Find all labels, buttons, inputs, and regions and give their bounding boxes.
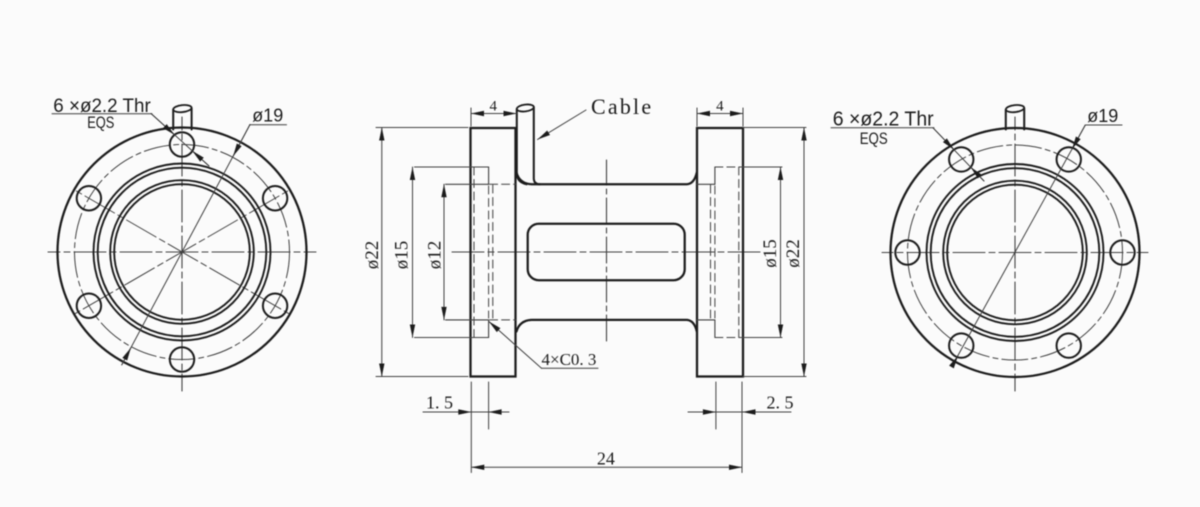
- svg-text:4×C0. 3: 4×C0. 3: [542, 350, 597, 369]
- svg-text:ø22: ø22: [362, 241, 383, 270]
- 6xdia2.2 callout leader thru top hole: [151, 114, 209, 167]
- svg-text:2. 5: 2. 5: [767, 393, 794, 413]
- center barrel rounded rect: [528, 224, 685, 281]
- svg-text:ø19: ø19: [252, 106, 283, 126]
- cable tube: [517, 109, 527, 184]
- svg-text:4: 4: [489, 99, 497, 115]
- vertical centerline: [181, 117, 183, 391]
- left flange outline: [471, 128, 516, 377]
- left flange hidden dashed verticals: [473, 167, 475, 338]
- horizontal centerline: [48, 251, 316, 253]
- outer flange circle: [891, 128, 1140, 377]
- dim 2.5 bottom right: [741, 382, 743, 473]
- raised face circle pair outer: [927, 164, 1104, 341]
- left flange interior: dia12 lines: [446, 183, 489, 185]
- bolt hole 210 deg: [77, 294, 101, 318]
- right flange hidden dashed verticals: [738, 167, 740, 338]
- dim 4 right: [696, 108, 698, 126]
- svg-text:ø22: ø22: [783, 239, 804, 268]
- outer flange circle: [58, 128, 307, 377]
- svg-text:ø15: ø15: [392, 241, 413, 270]
- svg-text:EQS: EQS: [87, 115, 114, 133]
- svg-text:6 ×ø2.2 Thr: 6 ×ø2.2 Thr: [833, 108, 934, 130]
- horizontal centerline: [882, 252, 1148, 254]
- svg-text:1. 5: 1. 5: [426, 393, 453, 413]
- svg-text:24: 24: [597, 449, 615, 469]
- svg-text:ø15: ø15: [760, 239, 781, 268]
- dim dia22 right: [743, 127, 806, 129]
- dim dia22 left: [376, 127, 468, 129]
- diagonal centerline 30-210: [75, 190, 290, 314]
- svg-text:ø12: ø12: [425, 241, 446, 270]
- svg-text:4: 4: [716, 99, 724, 115]
- hub top edge with fillets: [517, 173, 697, 185]
- raised face circle pair outer: [94, 164, 271, 341]
- dim dia15 right: [780, 167, 782, 338]
- svg-text:EQS: EQS: [860, 129, 888, 148]
- cable stub: [1005, 110, 1007, 130]
- bore circle pair inner: [943, 181, 1087, 325]
- dia19 dimension line (60deg thru center): [122, 125, 250, 365]
- bolt hole 0 deg: [1110, 240, 1134, 264]
- bolt hole 330 deg: [263, 294, 287, 318]
- diagonal centerline 150-330: [75, 190, 290, 314]
- dim 4 left: extension + line + label: [470, 108, 472, 126]
- bolt hole 120 deg: [949, 147, 973, 171]
- right flange interior: dia12 lines: [697, 183, 715, 185]
- bolt hole 180 deg: [895, 240, 919, 264]
- dia19 dimension line (60deg thru center): [953, 125, 1085, 364]
- bolt hole 90 deg: [170, 132, 194, 156]
- bolt circle (dash-dot): [75, 145, 290, 360]
- dim 24 bottom: [471, 466, 742, 468]
- right flange interior: dia15 bore lines + step: [715, 166, 743, 168]
- right flange outline: [697, 128, 743, 377]
- svg-text:Cable: Cable: [591, 94, 653, 119]
- bolt hole 30 deg: [263, 186, 287, 210]
- dim dia12 left: [443, 184, 445, 320]
- bolt hole 240 deg: [949, 333, 973, 357]
- vertical centerline: [1014, 117, 1016, 391]
- dim 1.5 bottom left: [470, 382, 472, 473]
- svg-text:ø19: ø19: [1087, 106, 1118, 126]
- hub bottom edge with fillets: [517, 320, 697, 332]
- left flange interior: dia15 bore lines + step: [415, 166, 489, 168]
- bolt hole 150 deg: [77, 186, 101, 210]
- dim dia15 left: [412, 167, 414, 338]
- bore circle pair inner: [110, 180, 254, 324]
- bolt hole 270 deg: [170, 347, 194, 371]
- vertical centerline: [606, 160, 608, 345]
- 6xdia2.2 callout leader thru 120deg hole: [933, 128, 984, 181]
- bolt hole 60 deg: [1057, 147, 1081, 171]
- cable stub: [172, 110, 174, 130]
- bolt circle (dash-dot): [908, 145, 1123, 360]
- horizontal centerline: [452, 251, 764, 253]
- bolt hole 300 deg: [1057, 333, 1081, 357]
- 4xC0.3 leader + label: [489, 322, 542, 369]
